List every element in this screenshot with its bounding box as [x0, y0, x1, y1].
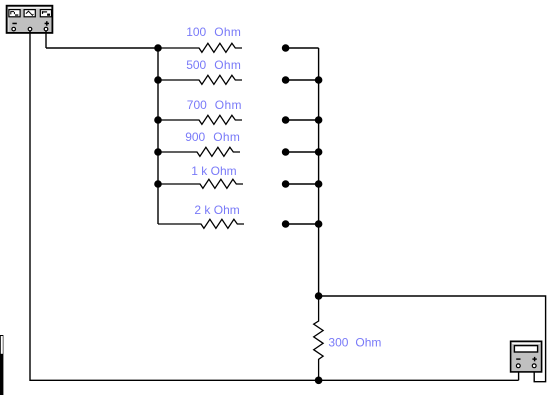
open terminal dot row 2: [282, 76, 290, 84]
open terminal dot row 6: [282, 220, 290, 228]
junction dot left bus row 3: [154, 116, 162, 124]
resistor 1 k Ohm: [158, 179, 243, 188]
right bus wire: [318, 48, 320, 296]
svg-text:300: 300: [328, 335, 348, 349]
resistor 300 Ohm: [314, 296, 323, 380]
open terminal dot row 4: [282, 148, 290, 156]
junction dot left bus row 2: [154, 76, 162, 84]
function generator: [7, 6, 53, 33]
label 700 Ohm: [187, 98, 242, 112]
multimeter display: [514, 346, 537, 352]
wire right row 4: [286, 151, 319, 153]
open terminal dot row 3: [282, 116, 290, 124]
open terminal dot row 1: [282, 44, 290, 52]
multimeter minus lead wire: [518, 372, 520, 380]
resistor 900 Ohm: [157, 147, 240, 156]
generator terminal common: [28, 27, 32, 31]
multimeter: [511, 341, 542, 372]
svg-text:Ohm: Ohm: [215, 98, 242, 112]
wire right row 6: [286, 223, 319, 225]
junction dot right bus row 2: [315, 76, 323, 84]
left bus wire: [157, 48, 159, 224]
square wave button (selected): [40, 10, 51, 17]
resistor 2 k Ohm: [158, 219, 244, 228]
svg-text:Ohm: Ohm: [213, 130, 240, 144]
junction dot left bus row 1: [154, 44, 162, 52]
multimeter terminal plus: [532, 364, 536, 368]
svg-text:Ohm: Ohm: [214, 25, 241, 39]
minus label on generator: [12, 23, 16, 25]
triangle wave button: [24, 10, 35, 17]
open terminal dot row 5: [282, 180, 290, 188]
junction dot left bus row 5: [154, 180, 162, 188]
svg-text:2 k Ohm: 2 k Ohm: [194, 203, 239, 217]
multimeter terminal minus: [516, 364, 520, 368]
wire right row 2: [286, 79, 319, 81]
resistor 500 Ohm: [158, 75, 242, 84]
junction dot right bus row 6: [315, 220, 323, 228]
partial instrument at left edge: [0, 335, 3, 395]
junction dot left bus row 4: [154, 148, 162, 156]
wire from bus to multimeter plus side: [319, 296, 546, 382]
junction dot at bottom of 300 Ohm: [315, 377, 323, 385]
svg-text:100: 100: [186, 25, 206, 39]
junction dot right bus row 4: [315, 148, 323, 156]
label 300 Ohm: [328, 335, 381, 349]
wire from generator plus terminal down: [45, 31, 47, 48]
resistor 700 Ohm: [158, 115, 242, 124]
generator terminal minus: [12, 27, 16, 31]
wire right row 1: [286, 47, 319, 49]
multimeter plus label: [532, 357, 536, 361]
wire from generator plus to left bus: [46, 47, 158, 49]
plus label on generator: [45, 21, 49, 26]
wire from generator common terminal down left side: [30, 31, 519, 380]
svg-text:900: 900: [185, 130, 205, 144]
label 100 Ohm: [186, 25, 241, 39]
wire right row 5: [286, 183, 319, 185]
sine wave button: [9, 10, 20, 17]
multimeter minus label: [516, 358, 520, 359]
svg-text:500: 500: [186, 58, 206, 72]
wire right row 3: [286, 119, 319, 121]
svg-text:Ohm: Ohm: [355, 335, 381, 349]
junction dot at top of 300 Ohm: [315, 292, 323, 300]
junction dot right bus row 5: [315, 180, 323, 188]
label 900 Ohm: [185, 130, 240, 144]
label 500 Ohm: [186, 58, 241, 72]
svg-text:1 k Ohm: 1 k Ohm: [191, 164, 236, 178]
generator terminal plus: [44, 27, 48, 31]
resistor 100 Ohm: [158, 43, 242, 52]
svg-text:Ohm: Ohm: [214, 58, 241, 72]
junction dot right bus row 3: [315, 116, 323, 124]
svg-text:700: 700: [187, 98, 207, 112]
